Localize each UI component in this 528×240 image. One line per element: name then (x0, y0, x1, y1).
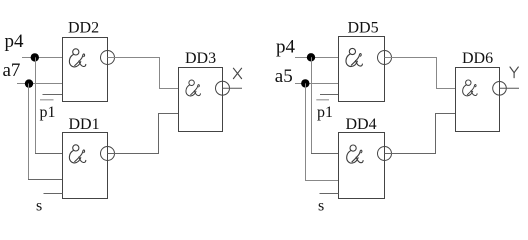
amp symbol DD5 (346, 48, 362, 66)
wire p4 input (22, 57, 63, 59)
wire DD4 input 1 (311, 153, 339, 155)
wire p4 input (right) (295, 57, 339, 59)
amp symbol DD6 (463, 80, 477, 96)
amp symbol DD1 (69, 145, 85, 163)
junction dot a5 (301, 79, 309, 87)
wire p1 stub (right) (320, 94, 339, 96)
gate body DD6 (456, 68, 500, 132)
wire p4 branch vertical (right) (311, 57, 313, 153)
svg-text:DD6: DD6 (462, 50, 493, 67)
wire output X (223, 87, 243, 89)
wire DD1 input 1 (35, 153, 63, 155)
wire DD5 to DD6 (385, 58, 456, 89)
wire a5 input (295, 83, 339, 85)
svg-text:s: s (36, 197, 42, 214)
wire s stub (44, 193, 63, 195)
inversion bubble DD5 (378, 51, 392, 65)
wire DD1 to DD3 (108, 114, 179, 154)
wire p1 stub (43, 94, 63, 96)
inversion bubble DD2 (101, 51, 115, 65)
svg-text:p1: p1 (317, 104, 333, 121)
wire s stub (right) (320, 193, 339, 195)
inversion bubble DD1 (101, 147, 115, 161)
svg-text:DD2: DD2 (68, 20, 99, 37)
wire DD1 input 2 (28, 179, 63, 181)
inversion bubble DD6 (493, 82, 507, 96)
inversion bubble DD3 (216, 81, 230, 95)
amp symbol DD3 (186, 80, 200, 96)
svg-text:p4: p4 (5, 31, 25, 52)
amp symbol DD4 (347, 145, 363, 163)
wire output Y (500, 87, 520, 89)
svg-text:DD4: DD4 (346, 116, 377, 133)
label X (233, 68, 241, 78)
label Y (510, 67, 518, 78)
gate body DD2 (63, 38, 108, 102)
wire DD4 input 2 (305, 180, 339, 182)
gate body DD4 (339, 133, 385, 199)
gate body DD1 (63, 133, 108, 199)
svg-text:s: s (318, 197, 324, 214)
svg-text:DD3: DD3 (185, 50, 216, 67)
junction dot a7 (25, 79, 33, 87)
negation overline p1 (right) (316, 99, 329, 101)
wire DD4 to DD6 (385, 114, 456, 154)
wire a7 input (17, 83, 63, 85)
junction dot p4 (right) (307, 53, 315, 61)
svg-text:a7: a7 (3, 60, 21, 81)
svg-text:p1: p1 (40, 104, 56, 121)
inversion bubble DD4 (378, 147, 392, 161)
gate body DD3 (179, 68, 223, 132)
gate body DD5 (339, 37, 385, 102)
wire DD2 to DD3 (108, 58, 179, 89)
svg-text:DD1: DD1 (69, 116, 100, 133)
wire a5 branch vertical (305, 83, 307, 180)
wire a7 branch vertical (28, 84, 30, 180)
svg-text:p4: p4 (276, 37, 296, 58)
negation overline p1 (40, 99, 54, 101)
junction dot p4 (31, 53, 39, 61)
wire p4 branch vertical (35, 57, 37, 153)
svg-text:DD5: DD5 (348, 19, 379, 36)
amp symbol DD2 (69, 49, 85, 67)
svg-text:a5: a5 (275, 66, 293, 87)
